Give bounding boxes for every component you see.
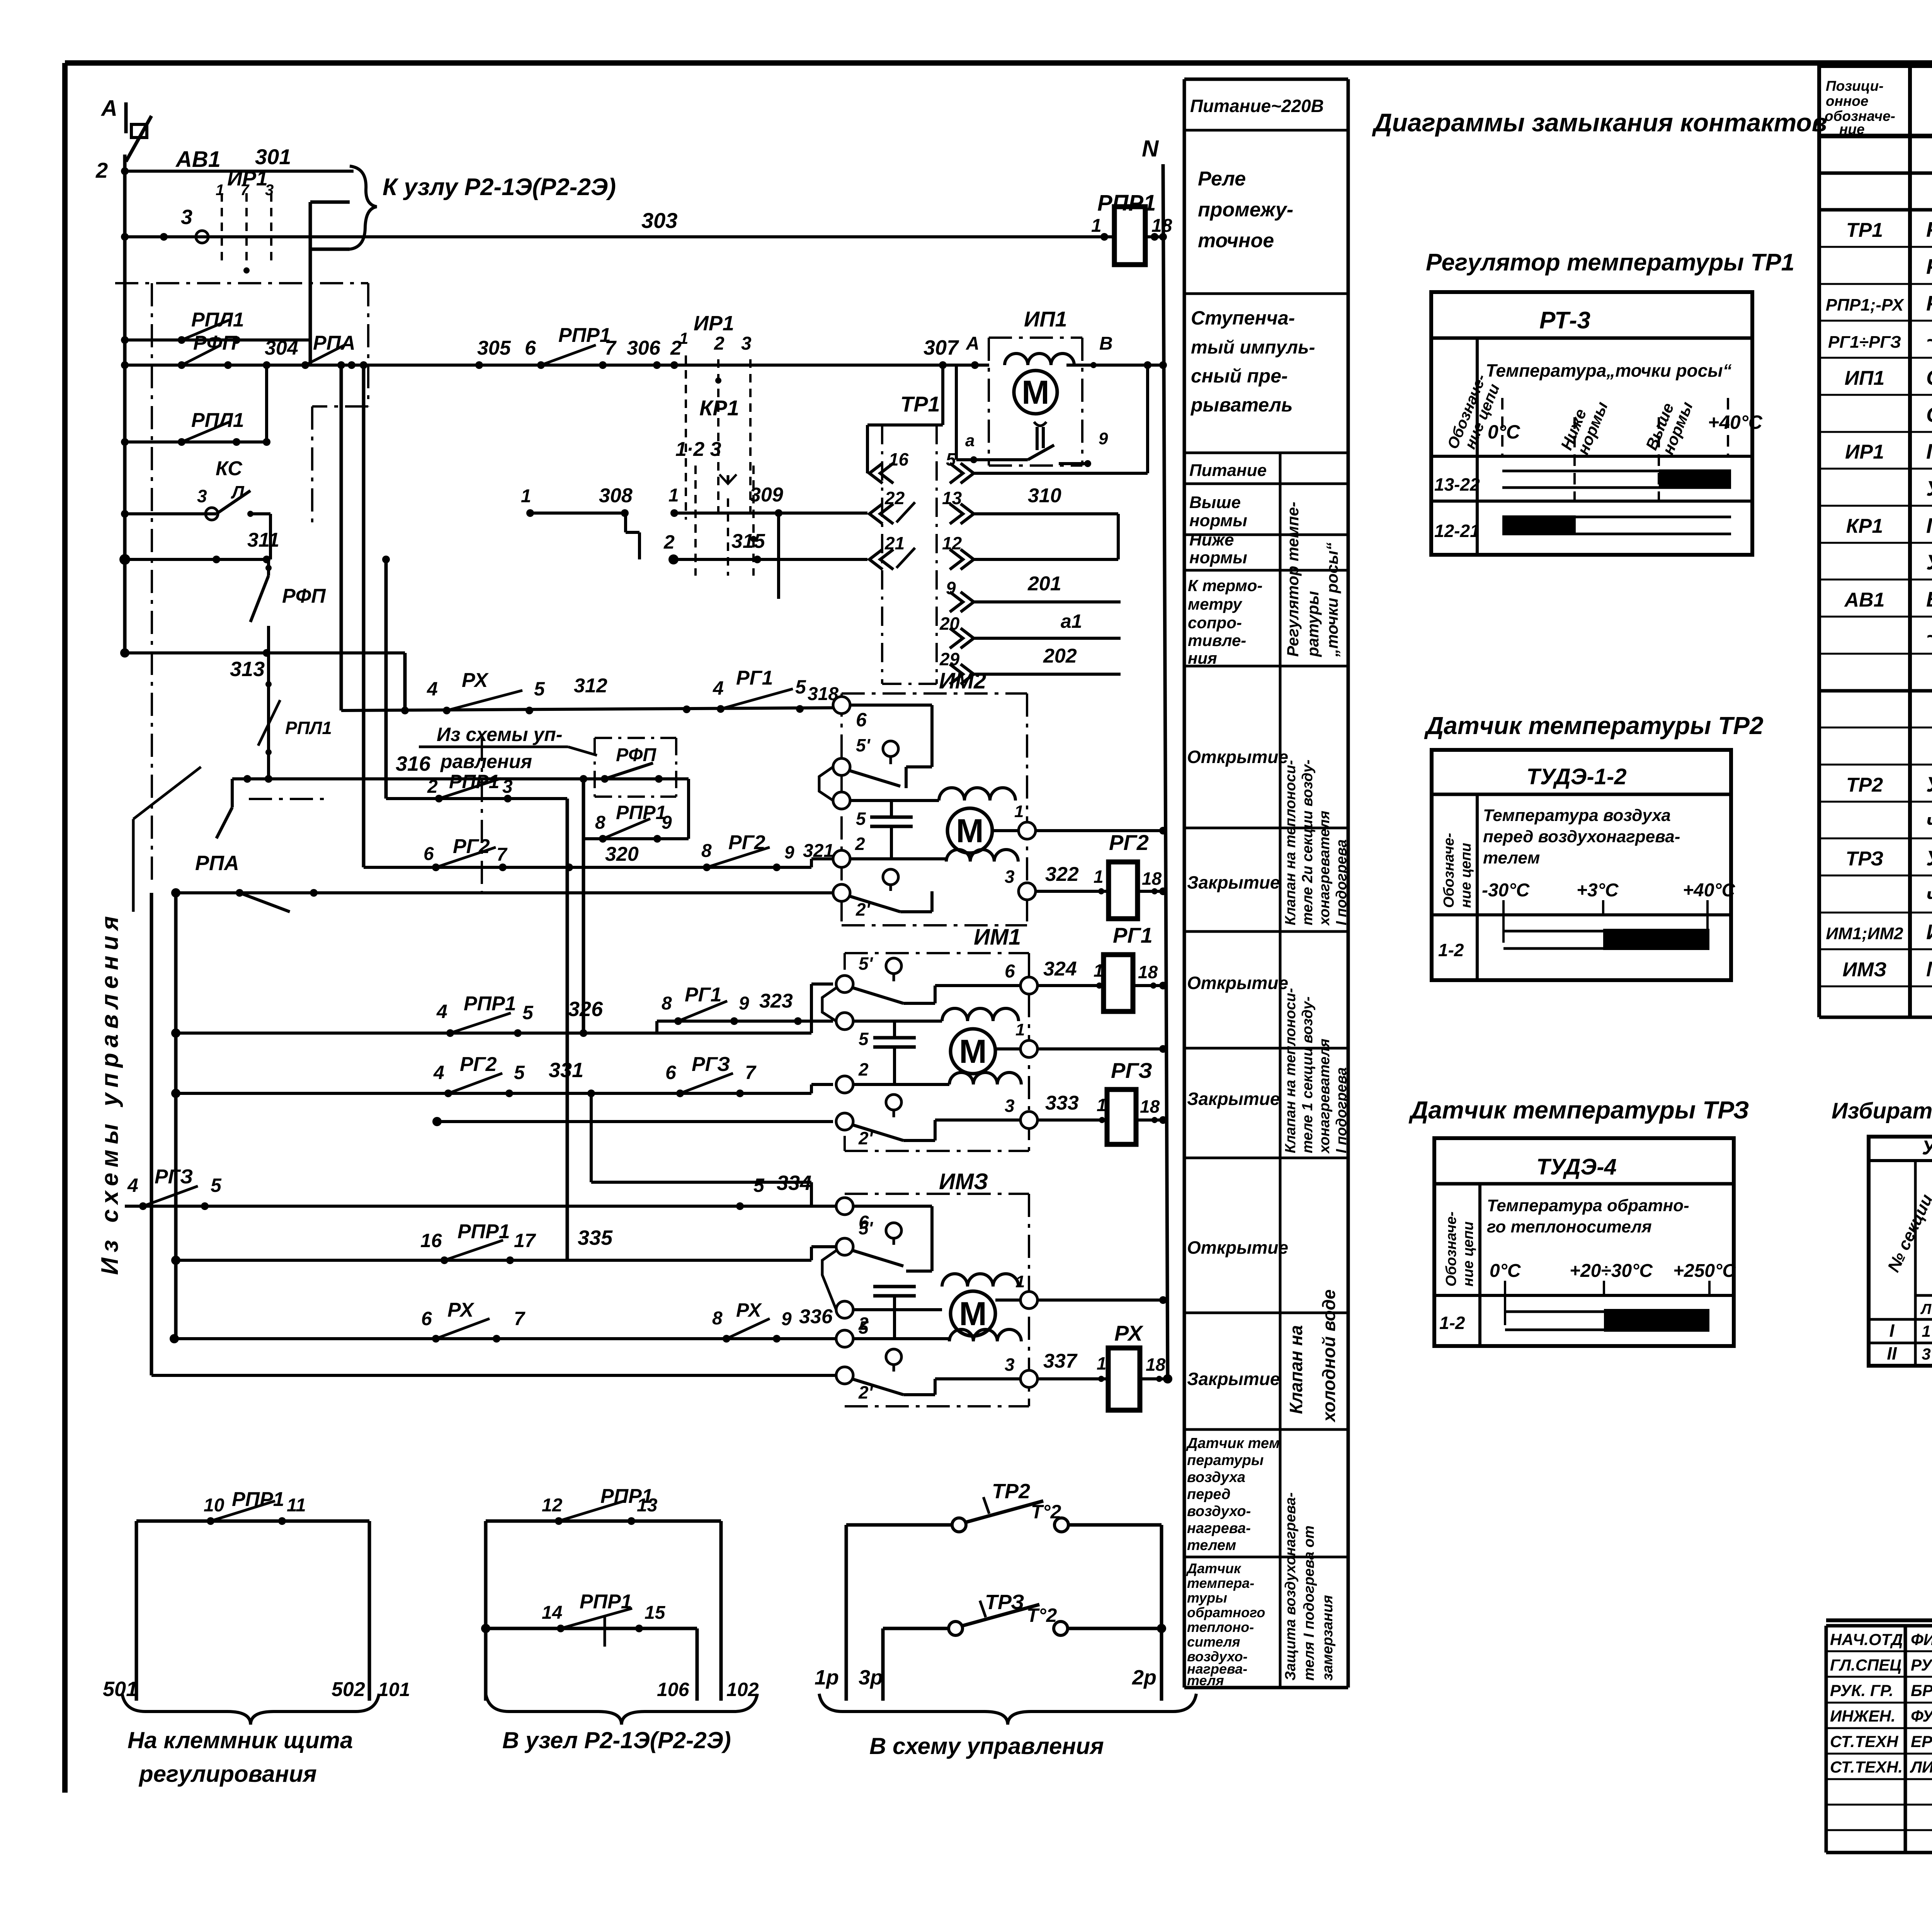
IM2 node 6 <box>833 697 850 714</box>
svg-text:5': 5' <box>859 953 874 974</box>
svg-text:УП5311-А225 ТУ16-52: УП5311-А225 ТУ16-524-074-75 <box>1926 550 1932 574</box>
svg-text:12-21: 12-21 <box>1434 521 1480 541</box>
wire 326 row <box>176 1032 811 1035</box>
svg-text:промежу-: промежу- <box>1198 199 1293 221</box>
svg-text:АВ1: АВ1 <box>1844 589 1884 611</box>
svg-text:теле 1 секции возду-: теле 1 секции возду- <box>1299 996 1316 1153</box>
svg-text:322: 322 <box>1045 863 1079 886</box>
svg-text:РХ: РХ <box>447 1299 475 1321</box>
svg-text:Исполнительный механизм: Исполнительный механизм <box>1926 920 1932 944</box>
svg-text:331: 331 <box>549 1059 583 1082</box>
svg-text:Открытие: Открытие <box>1187 1237 1288 1258</box>
svg-text:1р: 1р <box>815 1666 839 1689</box>
diagram TUDE-1-2 box <box>1432 750 1731 980</box>
svg-text:ИМ1;ИМ2: ИМ1;ИМ2 <box>1826 924 1903 943</box>
svg-text:пературы: пературы <box>1187 1452 1264 1468</box>
svg-text:304: 304 <box>265 337 298 359</box>
svg-text:333: 333 <box>1045 1092 1079 1114</box>
svg-text:Реле: Реле <box>1198 168 1246 190</box>
contact RPL1 (upper) <box>121 336 129 344</box>
IM1 node 1 <box>1020 1040 1037 1057</box>
svg-text:6: 6 <box>423 844 434 864</box>
vertical feeder x883 <box>337 361 345 369</box>
wire 2p IM3 <box>151 1374 836 1377</box>
svg-text:ИП1: ИП1 <box>1845 367 1885 389</box>
svg-text:Устройство терморегулирующее: Устройство терморегулирующее элемент <box>1926 772 1932 796</box>
border frame <box>65 60 1932 66</box>
svg-text:11: 11 <box>287 1495 306 1516</box>
svg-text:4: 4 <box>127 1174 138 1196</box>
svg-text:точное: точное <box>1198 229 1274 252</box>
svg-text:4: 4 <box>433 1062 444 1083</box>
svg-text:14: 14 <box>542 1603 562 1623</box>
svg-text:5: 5 <box>534 678 545 700</box>
brace to node P2-1E <box>350 166 377 249</box>
svg-text:336: 336 <box>799 1305 833 1328</box>
svg-text:6: 6 <box>856 709 867 731</box>
svg-text:темпера-: темпера- <box>1187 1575 1254 1591</box>
svg-text:РПР1: РПР1 <box>558 324 611 347</box>
svg-text:РХ: РХ <box>736 1299 762 1321</box>
svg-text:3: 3 <box>1922 1345 1930 1363</box>
legs 106/102 <box>696 1628 699 1701</box>
svg-text:ИМЗ: ИМЗ <box>1842 959 1886 981</box>
svg-text:ИМ1: ИМ1 <box>974 925 1021 950</box>
svg-text:1: 1 <box>1015 1272 1025 1291</box>
vertical feeder x941 <box>360 361 367 369</box>
svg-text:Температура воздуха: Температура воздуха <box>1483 806 1671 825</box>
svg-text:М: М <box>959 1033 987 1070</box>
svg-text:РГЗ: РГЗ <box>1111 1058 1152 1083</box>
svg-text:5: 5 <box>856 809 866 829</box>
svg-text:А: А <box>100 96 117 121</box>
wire 8 RG1 9 323 row <box>657 1020 833 1023</box>
wire 304/305/306/307 row <box>121 361 129 369</box>
svg-text:7: 7 <box>497 845 508 865</box>
wire stub y1690 <box>120 648 129 658</box>
svg-text:3: 3 <box>741 333 752 354</box>
svg-text:5: 5 <box>522 1002 534 1023</box>
circuit top wire 10-11 <box>136 1519 369 1523</box>
IM1 node 5 <box>836 1013 853 1030</box>
svg-text:1: 1 <box>1014 802 1024 821</box>
svg-text:онное: онное <box>1826 93 1868 109</box>
wire N bus <box>1163 164 1168 1379</box>
svg-text:6: 6 <box>1005 961 1015 982</box>
wire 334 row <box>125 1205 836 1208</box>
svg-text:13: 13 <box>637 1495 658 1516</box>
svg-text:Устройство терморегулирующее э: Устройство терморегулирующее электри <box>1926 846 1932 870</box>
brace control scheme <box>819 1694 1196 1725</box>
svg-text:Из схемы уп-: Из схемы уп- <box>437 724 562 745</box>
svg-text:КС: КС <box>216 457 243 480</box>
svg-text:ческое ТУДЭ-1-2 ТУ25-02: ческое ТУДЭ-1-2 ТУ25-02.1074-75 <box>1926 809 1932 833</box>
svg-text:РХ: РХ <box>1114 1321 1144 1345</box>
svg-text:12: 12 <box>542 1495 563 1516</box>
svg-text:Датчик температуры ТРЗ: Датчик температуры ТРЗ <box>1408 1096 1749 1124</box>
svg-text:РФП: РФП <box>282 585 326 607</box>
svg-text:326: 326 <box>568 998 603 1021</box>
svg-text:2: 2 <box>95 158 108 182</box>
svg-text:1: 1 <box>668 485 679 506</box>
svg-text:1-2: 1-2 <box>1439 1313 1465 1333</box>
svg-text:7: 7 <box>240 182 250 199</box>
svg-text:„точки росы“: „точки росы“ <box>1323 542 1341 657</box>
svg-text:Клапан на теплоноси-: Клапан на теплоноси- <box>1282 988 1299 1153</box>
svg-text:РТ-3 ТУ-26-02- 203114-78: РТ-3 ТУ-26-02- 203114-78 <box>1926 255 1932 279</box>
wire IM3-1 to N <box>1037 1299 1163 1302</box>
svg-text:воздуха: воздуха <box>1187 1469 1245 1485</box>
svg-text:РХ: РХ <box>462 669 489 692</box>
svg-text:334: 334 <box>777 1171 811 1195</box>
IM2 capacitor <box>890 801 893 817</box>
wire 335 row <box>176 1259 811 1262</box>
svg-text:18: 18 <box>1138 962 1158 982</box>
vertical feeder x1468 <box>566 799 569 1260</box>
svg-text:3: 3 <box>1005 1355 1015 1375</box>
vertical feeder x999 <box>384 559 388 799</box>
wire 301 <box>125 170 354 173</box>
svg-text:ЕРИНА: ЕРИНА <box>1911 1732 1932 1751</box>
circuit to node P2-1E: left leg 101 <box>484 1521 488 1701</box>
wire 8 RPR1 9 <box>583 837 689 840</box>
svg-text:ТР2: ТР2 <box>1846 774 1883 796</box>
riser from RFP box <box>687 779 690 839</box>
svg-text:21: 21 <box>884 533 905 553</box>
IP1 interrupter contact <box>955 365 958 460</box>
svg-text:На клеммник щита: На клеммник щита <box>128 1727 353 1753</box>
IM1 node 2 <box>836 1076 853 1093</box>
annotation strip frame <box>1184 78 1348 81</box>
svg-text:202: 202 <box>1043 645 1077 667</box>
svg-text:Температура обратно-: Температура обратно- <box>1487 1196 1689 1215</box>
wire link 301-303 <box>309 202 312 364</box>
svg-text:305: 305 <box>477 337 511 359</box>
svg-text:Обозначе-: Обозначе- <box>1441 833 1457 908</box>
wire IM2-1 to N <box>1036 829 1163 832</box>
svg-text:3: 3 <box>197 486 207 506</box>
svg-text:Открытие: Открытие <box>1187 973 1288 993</box>
svg-text:29: 29 <box>939 649 960 669</box>
svg-text:РПР1: РПР1 <box>616 802 666 823</box>
IM1 node 5p <box>836 976 853 993</box>
svg-text:ГЛ.СПЕЦ: ГЛ.СПЕЦ <box>1830 1656 1901 1674</box>
svg-text:I: I <box>1889 1321 1895 1341</box>
svg-text:тый импуль-: тый импуль- <box>1191 337 1315 358</box>
svg-text:+250°С: +250°С <box>1673 1261 1736 1281</box>
svg-text:9: 9 <box>784 842 794 862</box>
svg-text:РУК. ГР.: РУК. ГР. <box>1830 1681 1893 1700</box>
svg-text:рыватель: рыватель <box>1190 394 1293 416</box>
svg-text:Закрытие: Закрытие <box>1187 1369 1280 1389</box>
svg-text:5: 5 <box>514 1062 525 1083</box>
RT-3 tick lines <box>1501 398 1503 456</box>
vertical feeder x1510 <box>582 779 585 1033</box>
contact KC <box>121 510 129 518</box>
wire 2 RPR1 3 <box>386 797 567 800</box>
svg-text:РГ1: РГ1 <box>685 984 722 1006</box>
wire 14-15 <box>481 1624 490 1633</box>
svg-text:ИНЖЕН.: ИНЖЕН. <box>1830 1707 1896 1725</box>
IM1 lower coil <box>853 1083 949 1086</box>
svg-text:ЛИСИКИНА: ЛИСИКИНА <box>1910 1758 1932 1776</box>
IM3 node 2 <box>836 1330 853 1347</box>
svg-text:3р: 3р <box>859 1666 883 1689</box>
svg-text:Выключатель автоматический А63: Выключатель автоматический А63-МУЗ <box>1926 587 1932 611</box>
svg-text:106: 106 <box>657 1679 690 1700</box>
svg-text:теле 2и секции возду-: теле 2и секции возду- <box>1299 760 1316 925</box>
svg-text:ТР2: ТР2 <box>992 1480 1030 1503</box>
brace terminal strip <box>122 1694 379 1725</box>
svg-text:Ступенча-: Ступенча- <box>1191 307 1295 329</box>
svg-text:306: 306 <box>627 337 661 359</box>
svg-text:РПЛ1: РПЛ1 <box>285 718 332 738</box>
svg-text:+3°С: +3°С <box>1577 880 1619 901</box>
svg-text:ИМ2: ИМ2 <box>939 668 986 693</box>
svg-text:Т°2: Т°2 <box>1027 1604 1057 1626</box>
svg-text:+40°С: +40°С <box>1683 880 1736 901</box>
svg-text:теплоно-: теплоно- <box>1187 1619 1254 1635</box>
svg-text:II: II <box>1887 1343 1897 1363</box>
wire IM1-1 to N <box>1037 1047 1163 1050</box>
IM3 capacitor <box>894 1310 895 1321</box>
svg-text:РГ2: РГ2 <box>1109 830 1149 855</box>
svg-text:301: 301 <box>255 144 291 169</box>
svg-text:4: 4 <box>436 1001 447 1022</box>
svg-text:311: 311 <box>247 529 279 551</box>
selector table UP5311-C225 <box>1869 1137 1932 1366</box>
svg-text:N: N <box>1142 136 1159 161</box>
svg-text:1: 1 <box>679 329 688 347</box>
svg-text:7: 7 <box>605 337 617 359</box>
svg-text:ТУДЭ-4: ТУДЭ-4 <box>1536 1154 1617 1180</box>
IM3 node 5 <box>836 1301 853 1318</box>
svg-text:13-22: 13-22 <box>1434 474 1480 495</box>
IM2 node 5p <box>833 758 850 775</box>
svg-text:337: 337 <box>1043 1350 1078 1372</box>
wire 324 <box>1037 984 1104 987</box>
svg-text:2: 2 <box>858 1314 869 1334</box>
circuit to control scheme: legs <box>845 1525 848 1701</box>
svg-text:2р: 2р <box>1132 1666 1156 1689</box>
svg-text:18: 18 <box>1140 1096 1160 1117</box>
svg-text:ческое ТУДЭ-4 ТУ25-02.1: ческое ТУДЭ-4 ТУ25-02.1074-75 <box>1926 883 1932 907</box>
svg-text:РПР1: РПР1 <box>464 993 516 1015</box>
svg-text:СТ.ТЕХН: СТ.ТЕХН <box>1830 1732 1899 1751</box>
svg-text:1: 1 <box>1091 216 1102 236</box>
IM1 node 3 <box>1020 1112 1037 1129</box>
svg-text:101: 101 <box>378 1679 410 1700</box>
svg-text:Позици-: Позици- <box>1826 78 1884 94</box>
svg-text:102: 102 <box>726 1679 759 1700</box>
signature table <box>1825 1626 1828 1853</box>
svg-text:метру: метру <box>1188 595 1243 613</box>
svg-text:хонагревателя: хонагревателя <box>1316 811 1333 926</box>
svg-text:309: 309 <box>750 484 783 506</box>
wire 336 row <box>174 1337 836 1340</box>
wire 333 <box>1037 1118 1107 1122</box>
svg-text:8: 8 <box>662 993 672 1014</box>
svg-text:В схему управления: В схему управления <box>869 1733 1104 1759</box>
svg-text:5': 5' <box>856 735 871 755</box>
svg-text:1·2 3: 1·2 3 <box>675 438 721 461</box>
svg-text:К узлу Р2-1Э(Р2-2Э): К узлу Р2-1Э(Р2-2Э) <box>383 174 616 201</box>
svg-text:1-2: 1-2 <box>1438 940 1464 960</box>
svg-text:18: 18 <box>1142 869 1162 889</box>
svg-text:Регулятор температуры электри: Регулятор температуры электрический <box>1926 218 1932 241</box>
svg-text:316: 316 <box>396 752 431 775</box>
svg-text:321: 321 <box>803 841 834 861</box>
brace node P2 <box>486 1694 757 1725</box>
svg-text:РГЗ: РГЗ <box>155 1166 193 1188</box>
svg-text:нагрева-: нагрева- <box>1187 1520 1251 1536</box>
svg-text:307: 307 <box>923 336 959 359</box>
svg-text:5: 5 <box>795 676 806 698</box>
svg-text:Открытие: Открытие <box>1187 747 1288 767</box>
svg-text:телем: телем <box>1187 1537 1236 1553</box>
svg-text:+20÷30°С: +20÷30°С <box>1570 1261 1653 1281</box>
contact RPL1 (second) <box>121 438 129 446</box>
svg-text:Датчик температуры ТР2: Датчик температуры ТР2 <box>1424 712 1764 739</box>
svg-text:201: 201 <box>1027 573 1061 595</box>
svg-text:РФП: РФП <box>193 332 237 354</box>
svg-text:315: 315 <box>731 530 765 552</box>
vertical feeder x455 <box>174 893 178 1339</box>
IM3 node 5p <box>836 1238 853 1255</box>
svg-text:РГ1÷РГЗ: РГ1÷РГЗ <box>1828 333 1901 352</box>
diagram RT-3 box <box>1431 292 1752 555</box>
svg-text:17: 17 <box>514 1230 536 1251</box>
svg-text:Обозначе-: Обозначе- <box>1443 1212 1459 1287</box>
svg-text:ИР1: ИР1 <box>1845 441 1884 463</box>
svg-text:В: В <box>1099 333 1113 354</box>
svg-text:1: 1 <box>1015 1020 1025 1039</box>
wire 312/318 row (RX + RG1 contacts) <box>341 708 833 710</box>
svg-text:2: 2 <box>858 1059 869 1079</box>
svg-text:1: 1 <box>1097 1353 1107 1373</box>
svg-text:4: 4 <box>713 677 724 699</box>
IM2 node 3 <box>1019 883 1036 900</box>
svg-text:телем: телем <box>1483 848 1540 867</box>
wire 2p IM1 <box>437 1120 833 1123</box>
svg-text:Защита воздухонагрева-: Защита воздухонагрева- <box>1282 1492 1299 1681</box>
circuit to terminal strip: left leg <box>135 1521 138 1701</box>
svg-text:6: 6 <box>525 337 536 359</box>
svg-text:313: 313 <box>230 658 265 681</box>
svg-text:РГ2: РГ2 <box>460 1053 497 1076</box>
wire bus A vertical <box>123 155 127 655</box>
svg-text:502: 502 <box>332 1678 365 1701</box>
svg-text:9: 9 <box>781 1309 792 1329</box>
svg-text:Избиратель регулированияИР1 К: Избиратель регулированияИР1 Ключ регулир… <box>1832 1098 1932 1123</box>
svg-text:ИП1: ИП1 <box>1024 307 1067 331</box>
svg-text:Переключатель универсальный: Переключатель универсальный <box>1926 513 1932 537</box>
svg-text:УП5311-С225 ТУ16-: УП5311-С225 ТУ16-524-074-75 <box>1926 476 1932 500</box>
svg-text:РПЛ1: РПЛ1 <box>191 309 244 331</box>
IM3 node 6 <box>836 1198 853 1215</box>
wire 12-13 <box>486 1519 721 1523</box>
svg-text:20: 20 <box>939 614 960 634</box>
strip divider <box>1279 453 1282 1688</box>
riser RFP chain <box>267 559 270 576</box>
svg-text:Л: Л <box>1920 1301 1932 1317</box>
svg-text:ФИНГЕР: ФИНГЕР <box>1911 1630 1932 1649</box>
svg-text:НАЧ.ОТД: НАЧ.ОТД <box>1830 1630 1903 1649</box>
svg-text:ратуры: ратуры <box>1304 591 1322 657</box>
svg-text:КР1: КР1 <box>699 396 739 420</box>
svg-text:2: 2 <box>855 834 865 854</box>
svg-text:ния: ния <box>1188 649 1217 667</box>
svg-text:Температура„точки росы“: Температура„точки росы“ <box>1486 360 1732 381</box>
IM2 node 5 <box>833 792 850 809</box>
svg-text:+40°С: +40°С <box>1708 411 1763 433</box>
svg-text:1: 1 <box>1094 867 1104 887</box>
svg-text:РГ1: РГ1 <box>1113 923 1153 947</box>
svg-text:нормы: нормы <box>1189 511 1247 530</box>
wire 331 row (4 RG2 5 / 6 RG3 7) <box>176 1092 811 1095</box>
svg-text:I подогрева: I подогрева <box>1333 1067 1350 1153</box>
svg-text:10: 10 <box>204 1495 224 1516</box>
svg-text:3: 3 <box>1005 867 1015 887</box>
svg-text:а: а <box>965 431 975 450</box>
svg-text:В узел Р2-1Э(Р2-2Э): В узел Р2-1Э(Р2-2Э) <box>502 1727 731 1753</box>
control-scheme boundary (dash-dot) <box>115 282 368 284</box>
svg-text:перед: перед <box>1187 1486 1231 1502</box>
svg-text:сителя: сителя <box>1187 1634 1240 1650</box>
svg-text:Ступенчатый импульсный преры: Ступенчатый импульсный прерыватель <box>1926 365 1932 389</box>
IM2 motor branch <box>850 799 939 802</box>
svg-text:ние цепи: ние цепи <box>1460 1221 1476 1287</box>
svg-text:0°С: 0°С <box>1488 421 1520 443</box>
svg-text:а1: а1 <box>1061 610 1082 632</box>
svg-text:ТРЗ: ТРЗ <box>1846 848 1884 870</box>
svg-text:5: 5 <box>859 1029 869 1049</box>
svg-text:Реле промежуточное ПЭ-21-5УЗ: Реле промежуточное ПЭ-21-5УЗ <box>1926 291 1932 315</box>
IM2 node 2p <box>833 884 850 901</box>
svg-text:15: 15 <box>645 1603 666 1623</box>
svg-text:Переключатель универсальный: Переключатель универсальный <box>1926 439 1932 463</box>
wire 303 <box>121 233 129 241</box>
svg-text:М: М <box>959 1295 987 1333</box>
svg-text:3: 3 <box>1005 1096 1015 1116</box>
svg-text:ФУКС: ФУКС <box>1911 1707 1932 1725</box>
svg-text:3: 3 <box>181 206 192 229</box>
svg-text:регулирования: регулирования <box>138 1761 317 1787</box>
svg-text:4: 4 <box>427 678 438 700</box>
svg-text:3: 3 <box>265 182 274 199</box>
svg-text:324: 324 <box>1043 958 1077 980</box>
wire 337 <box>1037 1377 1108 1380</box>
svg-text:воздухо-: воздухо- <box>1187 1503 1251 1519</box>
svg-text:тивле-: тивле- <box>1188 631 1246 649</box>
svg-text:1: 1 <box>216 182 224 199</box>
wire 307 drop to TR1 <box>941 365 944 425</box>
svg-text:320: 320 <box>605 843 639 865</box>
svg-text:Питание: Питание <box>1189 461 1267 480</box>
svg-text:5: 5 <box>211 1174 222 1196</box>
IM3 node 1 <box>1020 1292 1037 1309</box>
svg-text:7: 7 <box>745 1062 757 1083</box>
IM2 lower coil <box>946 850 1018 862</box>
svg-text:ИМЗ: ИМЗ <box>939 1169 988 1194</box>
svg-text:Регулятор температуры ТР1: Регулятор температуры ТР1 <box>1426 249 1794 276</box>
svg-text:МЭО-0,63/63-0,25 ТУ1-01-0321-: МЭО-0,63/63-0,25 ТУ1-01-0321-76 <box>1926 957 1932 981</box>
contact TR3 <box>883 1627 949 1630</box>
svg-text:6: 6 <box>665 1062 677 1083</box>
svg-text:5': 5' <box>859 1218 874 1238</box>
svg-text:РПР1;-РХ: РПР1;-РХ <box>1826 296 1905 314</box>
svg-text:нормы: нормы <box>1189 548 1247 567</box>
